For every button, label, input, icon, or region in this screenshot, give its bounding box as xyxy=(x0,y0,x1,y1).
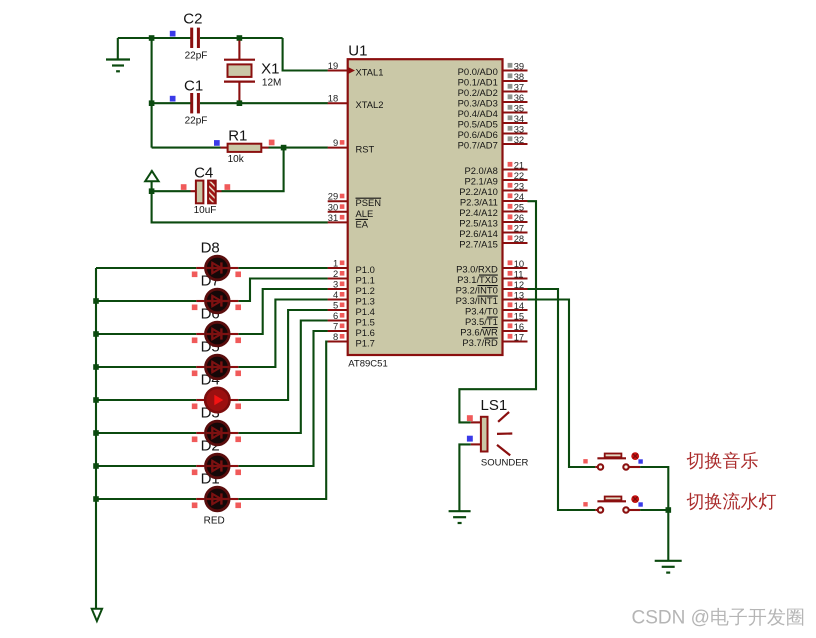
probe square D5 right xyxy=(235,371,241,377)
svg-text:P0.7/AD7: P0.7/AD7 xyxy=(458,140,498,151)
probe square D8 left xyxy=(192,272,198,278)
wire P3.2 to button2 xyxy=(528,289,596,510)
wire sounder bottom to ground xyxy=(459,444,470,511)
svg-text:R1: R1 xyxy=(228,127,247,144)
probe square SW2 right blue xyxy=(638,502,642,506)
svg-text:XTAL1: XTAL1 xyxy=(356,67,384,78)
svg-text:RST: RST xyxy=(356,144,375,155)
pin 34 P0.5/AD5 xyxy=(458,113,528,130)
wire ground to C2 xyxy=(118,37,191,39)
pin 16 P3.6/WR xyxy=(460,321,527,338)
svg-text:12: 12 xyxy=(514,279,524,290)
pin 7 P1.6 xyxy=(328,321,375,339)
svg-text:XTAL2: XTAL2 xyxy=(356,99,384,110)
pin 31 EA xyxy=(328,212,369,230)
pin 19 XTAL1 xyxy=(328,60,384,78)
pin 38 P0.1/AD1 xyxy=(458,71,528,88)
probe square SW2 left xyxy=(583,502,587,506)
svg-text:17: 17 xyxy=(514,331,524,342)
svg-text:26: 26 xyxy=(514,212,524,223)
wire RST node down to C4 xyxy=(222,148,284,192)
node junction R1/RST/C4 xyxy=(281,145,287,151)
pin 18 XTAL2 xyxy=(328,93,384,111)
svg-text:10: 10 xyxy=(514,258,524,269)
svg-text:P0.6/AD6: P0.6/AD6 xyxy=(458,129,498,140)
svg-text:11: 11 xyxy=(514,268,524,279)
LED D3 xyxy=(196,421,238,445)
wire C4 left xyxy=(152,190,191,192)
switch SW2 xyxy=(595,495,640,513)
LED D5 xyxy=(196,355,238,379)
svg-text:U1: U1 xyxy=(348,43,367,60)
svg-text:P2.4/A12: P2.4/A12 xyxy=(459,207,498,218)
svg-text:21: 21 xyxy=(514,159,524,170)
node junction bus row D6 xyxy=(93,331,99,337)
wire C1 left xyxy=(152,102,191,104)
probe square D6 right xyxy=(235,338,241,344)
svg-text:P2.3/A11: P2.3/A11 xyxy=(460,197,498,208)
svg-text:34: 34 xyxy=(514,113,524,124)
svg-text:6: 6 xyxy=(333,310,338,321)
svg-text:32: 32 xyxy=(514,134,524,145)
node junction bus row D5 xyxy=(93,364,99,370)
LED D2 xyxy=(196,454,238,478)
svg-text:P2.1/A9: P2.1/A9 xyxy=(464,176,497,187)
svg-text:ALE: ALE xyxy=(356,208,374,219)
wire LED D2 to pin 7 xyxy=(238,331,328,466)
wire P2.3 to sounder xyxy=(459,201,536,422)
pin 15 P3.5/T1 xyxy=(465,310,528,327)
pin 35 P0.4/AD4 xyxy=(458,102,528,119)
svg-text:27: 27 xyxy=(514,222,524,233)
wire LED D3 to pin 6 xyxy=(238,321,328,434)
pin 28 P2.7/A15 xyxy=(459,233,527,250)
ground (sounder) xyxy=(449,511,471,523)
pin 32 P0.7/AD7 xyxy=(458,134,528,151)
pin 22 P2.1/A9 xyxy=(464,170,527,187)
wire LED D1 left xyxy=(96,498,196,500)
svg-text:P1.4: P1.4 xyxy=(356,306,375,317)
svg-text:AT89C51: AT89C51 xyxy=(348,359,387,370)
sounder LS1 xyxy=(471,397,529,469)
blue probe square R1 xyxy=(214,140,220,146)
svg-text:3: 3 xyxy=(333,279,338,290)
resistor R1 xyxy=(221,127,269,165)
pin 39 P0.0/AD0 xyxy=(458,60,528,77)
probe square D2 right xyxy=(235,470,241,476)
wire vertical bus C2/C1/R1 xyxy=(151,38,153,148)
wire P3.3 to button1 xyxy=(528,300,596,468)
svg-text:30: 30 xyxy=(328,201,338,212)
probe square D6 left xyxy=(192,338,198,344)
pin 24 P2.3/A11 xyxy=(460,191,528,208)
probe square D2 left xyxy=(192,470,198,476)
pin 25 P2.4/A12 xyxy=(459,201,527,218)
svg-text:P3.3/INT1: P3.3/INT1 xyxy=(456,295,498,306)
probe square D8 right xyxy=(235,272,241,278)
svg-text:19: 19 xyxy=(328,60,338,71)
blue probe square C1 xyxy=(170,96,176,102)
svg-text:22pF: 22pF xyxy=(185,116,208,127)
switch SW1 xyxy=(595,452,640,469)
ground xyxy=(106,38,130,71)
svg-text:25: 25 xyxy=(514,201,524,212)
node junction bus row D3 xyxy=(93,430,99,436)
probe square D1 right xyxy=(235,503,241,509)
probe square D4 right xyxy=(235,404,241,410)
pin 37 P0.2/AD2 xyxy=(458,81,528,98)
node junction crystal bottom xyxy=(237,100,243,106)
svg-text:CSDN @: CSDN @ xyxy=(632,608,710,629)
wire buttons to ground xyxy=(667,510,669,560)
pin 29 PSEN xyxy=(328,191,381,209)
wire C1 to XTAL2 xyxy=(200,102,328,104)
node junction bus row D1 xyxy=(93,496,99,502)
probe square SW1 right blue xyxy=(638,459,642,463)
wire button2 right xyxy=(640,509,668,511)
probe square D7 right xyxy=(235,305,241,311)
svg-text:18: 18 xyxy=(328,93,338,104)
capacitor C1 xyxy=(184,78,207,127)
label 切换音乐 xyxy=(687,452,758,470)
svg-text:22pF: 22pF xyxy=(185,51,208,62)
svg-text:X1: X1 xyxy=(261,61,279,78)
pin 33 P0.6/AD6 xyxy=(458,123,528,140)
crystal X1 xyxy=(224,41,281,102)
clock arrow XTAL1 xyxy=(348,67,356,74)
wire crystal node to XTAL1 xyxy=(283,38,328,71)
svg-text:EA: EA xyxy=(356,218,369,229)
power arrow up (C4) xyxy=(145,171,158,192)
svg-text:C4: C4 xyxy=(194,165,213,182)
node junction bus row D7 xyxy=(93,298,99,304)
probe square D3 left xyxy=(192,437,198,443)
pin 10 P3.0/RXD xyxy=(456,258,527,275)
wire LED D6 to pin 3 xyxy=(238,289,328,334)
wire LED bus vertical xyxy=(95,268,97,609)
wire bus to R1 xyxy=(152,147,221,149)
svg-text:P2.7/A15: P2.7/A15 xyxy=(459,239,498,250)
LED D6 xyxy=(196,322,238,346)
pin 30 ALE xyxy=(328,201,374,219)
node junction buttons xyxy=(666,507,672,513)
wire R1 to RST xyxy=(269,147,328,149)
pin 17 P3.7/RD xyxy=(462,331,527,348)
svg-text:P0.0/AD0: P0.0/AD0 xyxy=(458,66,498,77)
wire LED D8 to pin 1 xyxy=(238,267,328,269)
wire LED D4 left xyxy=(96,399,196,401)
op-amp U1 AT89C51 body xyxy=(348,59,503,355)
LED D4 xyxy=(196,388,238,412)
pin 1 P1.0 xyxy=(328,258,375,276)
svg-text:P3.2/INT0: P3.2/INT0 xyxy=(456,285,498,296)
svg-text:P2.5/A13: P2.5/A13 xyxy=(459,218,498,229)
svg-text:35: 35 xyxy=(514,102,524,113)
svg-text:4: 4 xyxy=(333,289,338,300)
svg-text:16: 16 xyxy=(514,321,524,332)
svg-text:8: 8 xyxy=(333,331,338,342)
svg-text:23: 23 xyxy=(514,180,524,191)
svg-text:PSEN: PSEN xyxy=(356,197,382,208)
LED D8 xyxy=(196,256,238,280)
svg-text:LS1: LS1 xyxy=(481,397,508,414)
pin 26 P2.5/A13 xyxy=(459,212,527,229)
svg-text:P1.3: P1.3 xyxy=(356,296,375,307)
red probe square R1 xyxy=(269,140,275,146)
svg-text:29: 29 xyxy=(328,191,338,202)
ground (buttons) xyxy=(655,561,682,573)
pin 5 P1.4 xyxy=(328,300,375,318)
svg-text:P3.6/WR: P3.6/WR xyxy=(460,327,498,338)
svg-text:36: 36 xyxy=(514,92,524,103)
svg-text:14: 14 xyxy=(514,300,524,311)
svg-text:22: 22 xyxy=(514,170,524,181)
node junction C4 left xyxy=(149,188,155,194)
svg-text:P0.2/AD2: P0.2/AD2 xyxy=(458,87,498,98)
pin 12 P3.2/INT0 xyxy=(456,279,528,296)
pin 21 P2.0/A8 xyxy=(464,159,527,176)
blue probe square LS1 xyxy=(467,436,473,442)
wire LED D7 left xyxy=(96,300,196,302)
LED D7 xyxy=(196,289,238,313)
svg-text:P1.7: P1.7 xyxy=(356,338,375,349)
svg-text:39: 39 xyxy=(514,60,524,71)
svg-text:C2: C2 xyxy=(183,11,202,28)
red probe square LS1 xyxy=(467,415,473,421)
svg-text:P2.6/A14: P2.6/A14 xyxy=(459,228,498,239)
pin 2 P1.1 xyxy=(328,268,375,286)
ground arrow down (LED bus) xyxy=(92,609,102,621)
probe square D3 right xyxy=(235,437,241,443)
capacitor C2 xyxy=(183,11,207,62)
svg-text:SOUNDER: SOUNDER xyxy=(481,458,529,469)
svg-text:P3.5/T1: P3.5/T1 xyxy=(465,316,498,327)
wire LED D7 to pin 2 xyxy=(238,279,328,302)
pin 4 P1.3 xyxy=(328,289,375,307)
pin 27 P2.6/A14 xyxy=(459,222,527,239)
wire LED D5 left xyxy=(96,366,196,368)
svg-text:RED: RED xyxy=(204,515,225,526)
wire LED D3 left xyxy=(96,432,196,434)
red probe square C4 right xyxy=(225,184,231,190)
svg-text:2: 2 xyxy=(333,268,338,279)
wire LED D8 left xyxy=(96,267,196,269)
svg-text:P3.7/RD: P3.7/RD xyxy=(462,337,498,348)
wire C2 to crystal node xyxy=(200,37,283,39)
svg-text:5: 5 xyxy=(333,300,338,311)
LED D1 xyxy=(196,487,238,511)
svg-text:10k: 10k xyxy=(228,154,245,165)
svg-text:P3.0/RXD: P3.0/RXD xyxy=(456,264,498,275)
svg-text:P0.4/AD4: P0.4/AD4 xyxy=(458,108,498,119)
svg-text:12M: 12M xyxy=(262,78,281,89)
probe square D1 left xyxy=(192,503,198,509)
pin 14 P3.4/T0 xyxy=(465,300,528,317)
blue probe square C2 xyxy=(170,31,176,37)
watermark CJK xyxy=(711,608,803,626)
svg-text:C1: C1 xyxy=(184,78,203,95)
svg-text:P1.0: P1.0 xyxy=(356,264,375,275)
svg-text:33: 33 xyxy=(514,123,524,134)
svg-text:P1.2: P1.2 xyxy=(356,285,375,296)
wire button1 to button2 xyxy=(640,467,668,510)
svg-text:28: 28 xyxy=(514,233,524,244)
svg-text:P1.5: P1.5 xyxy=(356,317,375,328)
node junction bus row D4 xyxy=(93,397,99,403)
wire C4 node to EA xyxy=(152,191,328,222)
probe square D4 left xyxy=(192,404,198,410)
svg-text:D8: D8 xyxy=(201,240,220,257)
pin 8 P1.7 xyxy=(328,331,375,349)
wire LED D1 to pin 8 xyxy=(238,342,328,500)
svg-text:38: 38 xyxy=(514,71,524,82)
svg-text:9: 9 xyxy=(333,137,338,148)
node junction C2 left xyxy=(149,35,155,41)
capacitor C4 10uF xyxy=(191,165,222,217)
svg-text:P2.2/A10: P2.2/A10 xyxy=(459,186,498,197)
probe square SW1 left xyxy=(583,459,587,463)
node junction C1 bus xyxy=(149,100,155,106)
node junction crystal top xyxy=(237,35,243,41)
svg-text:P0.3/AD3: P0.3/AD3 xyxy=(458,98,498,109)
svg-text:37: 37 xyxy=(514,81,524,92)
pin 11 P3.1/TXD xyxy=(457,268,527,285)
svg-text:24: 24 xyxy=(514,191,524,202)
svg-text:1: 1 xyxy=(333,258,338,269)
svg-text:31: 31 xyxy=(328,212,338,223)
svg-text:15: 15 xyxy=(514,310,524,321)
pin 3 P1.2 xyxy=(328,279,375,297)
svg-text:P3.1/TXD: P3.1/TXD xyxy=(457,274,498,285)
pin 6 P1.5 xyxy=(328,310,375,328)
node junction bus row D2 xyxy=(93,463,99,469)
wire LED D5 to pin 4 xyxy=(238,300,328,368)
svg-text:10uF: 10uF xyxy=(194,205,217,216)
probe square D5 left xyxy=(192,371,198,377)
pin 9 RST xyxy=(328,137,375,155)
svg-text:P0.5/AD5: P0.5/AD5 xyxy=(458,119,498,130)
svg-text:P2.0/A8: P2.0/A8 xyxy=(464,165,497,176)
svg-text:7: 7 xyxy=(333,321,338,332)
svg-text:13: 13 xyxy=(514,289,524,300)
wire LED D4 to pin 5 xyxy=(238,310,328,400)
wire LED D6 left xyxy=(96,333,196,335)
svg-text:P1.1: P1.1 xyxy=(356,275,375,286)
pin 13 P3.3/INT1 xyxy=(456,289,528,306)
svg-text:P1.6: P1.6 xyxy=(356,327,375,338)
label 切换流水灯 xyxy=(687,492,776,510)
svg-text:P0.1/AD1: P0.1/AD1 xyxy=(458,77,498,88)
red probe square C4 left xyxy=(181,184,187,190)
svg-text:P3.4/T0: P3.4/T0 xyxy=(465,306,498,317)
pin 23 P2.2/A10 xyxy=(459,180,527,197)
probe square D7 left xyxy=(192,305,198,311)
wire LED D2 left xyxy=(96,465,196,467)
pin 36 P0.3/AD3 xyxy=(458,92,528,109)
